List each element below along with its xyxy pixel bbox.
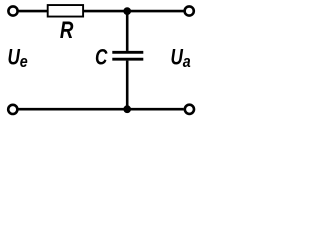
svg-text:e: e [20,53,28,71]
svg-text:U: U [171,46,184,71]
svg-text:C: C [95,46,108,71]
svg-text:a: a [183,53,191,71]
svg-text:R: R [60,17,74,44]
svg-text:U: U [8,46,21,71]
